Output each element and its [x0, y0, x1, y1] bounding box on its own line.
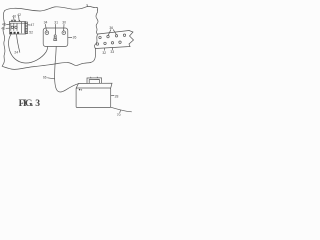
svg-text:40: 40 [12, 14, 16, 18]
svg-text:70: 70 [117, 113, 121, 117]
svg-text:FIG.: FIG. [19, 98, 34, 109]
svg-text:26: 26 [73, 36, 77, 40]
svg-text:42: 42 [17, 13, 21, 17]
svg-text:41: 41 [1, 26, 5, 30]
svg-text:36: 36 [109, 26, 113, 30]
svg-text:66: 66 [43, 76, 47, 80]
svg-text:34: 34 [44, 21, 48, 25]
svg-text:31: 31 [54, 21, 58, 25]
svg-text:33: 33 [110, 50, 114, 54]
svg-text:3: 3 [35, 98, 40, 109]
svg-text:28: 28 [115, 94, 119, 98]
svg-text:30: 30 [62, 21, 66, 25]
svg-text:32: 32 [102, 51, 106, 55]
svg-text:47: 47 [31, 23, 35, 27]
svg-text:24: 24 [14, 51, 18, 55]
svg-text:52: 52 [29, 31, 33, 35]
